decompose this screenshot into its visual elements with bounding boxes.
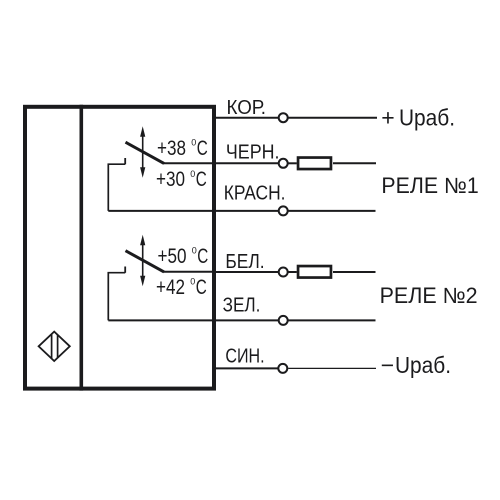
svg-text:РЕЛЕ №2: РЕЛЕ №2 (380, 283, 478, 308)
svg-text:СИН.: СИН. (225, 346, 264, 368)
svg-text:КОР.: КОР. (227, 97, 267, 119)
svg-text:ЗЕЛ.: ЗЕЛ. (223, 294, 261, 316)
svg-text:0: 0 (191, 137, 196, 147)
svg-text:−: − (381, 352, 394, 378)
svg-text:КРАСН.: КРАСН. (224, 183, 286, 205)
svg-text:C: C (197, 245, 208, 268)
svg-text:+42: +42 (156, 276, 185, 299)
svg-text:РЕЛЕ №1: РЕЛЕ №1 (381, 173, 478, 198)
svg-text:Uраб.: Uраб. (399, 105, 455, 131)
svg-text:ЧЕРН.: ЧЕРН. (226, 142, 280, 164)
svg-text:+38: +38 (157, 137, 186, 160)
svg-text:0: 0 (192, 245, 197, 255)
svg-text:+: + (381, 105, 394, 131)
svg-text:+30: +30 (156, 168, 185, 191)
svg-text:+50: +50 (158, 245, 187, 268)
svg-text:0: 0 (190, 277, 195, 287)
svg-text:C: C (196, 276, 207, 299)
svg-text:БЕЛ.: БЕЛ. (225, 251, 264, 273)
svg-text:Uраб.: Uраб. (395, 352, 451, 378)
svg-text:C: C (197, 137, 208, 160)
svg-text:0: 0 (190, 169, 195, 179)
svg-text:C: C (196, 168, 207, 191)
